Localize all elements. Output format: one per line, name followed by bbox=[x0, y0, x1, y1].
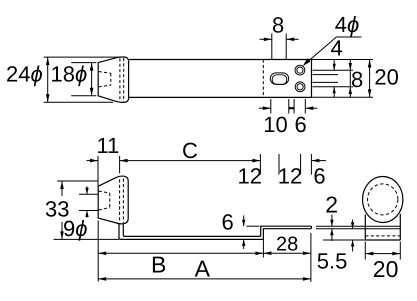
dim 10 right extension line bbox=[288, 99, 290, 114]
dim 8 slot right arrow bbox=[286, 38, 298, 40]
dim 4 line lower mirror bbox=[333, 87, 335, 98]
cap side bore end dashed bbox=[109, 193, 111, 208]
dim 18phi up arrowhead bbox=[90, 63, 94, 71]
cap side hidden dashed line 2 bbox=[122, 179, 124, 223]
slot bottom edge extension line bbox=[313, 81, 339, 83]
cap side bore top dashed bbox=[99, 191, 110, 193]
leader line 4phi bbox=[304, 37, 362, 65]
dim C line bbox=[120, 160, 261, 162]
dim 18phi top extension line bbox=[71, 62, 96, 64]
end view dashed circle bbox=[368, 184, 398, 215]
dim 8 slot left extension line bbox=[271, 34, 273, 60]
bar body top view bbox=[129, 60, 312, 98]
svg-text:10: 10 bbox=[263, 112, 287, 137]
dim 10-6 middle arrows bbox=[289, 107, 294, 109]
dim 9phi up arrow bbox=[86, 211, 88, 218]
dim 2 extension line top bbox=[316, 225, 365, 227]
dim 28 left extension line bbox=[262, 239, 264, 257]
dim 10 left extension line bbox=[270, 99, 272, 114]
dim 20 block line bbox=[365, 253, 400, 255]
svg-text:4ϕ: 4ϕ bbox=[335, 12, 360, 37]
hole circle 1 outer bbox=[295, 65, 305, 75]
circle2 center extension line bbox=[313, 86, 354, 88]
cap hidden edge dashed line 1 bbox=[119, 58, 121, 101]
dim 12-12-6 extension line d bbox=[310, 154, 312, 175]
strap tip end bbox=[310, 226, 312, 229]
socket cap side view outline bbox=[98, 176, 128, 224]
dim 6 right extension line bbox=[304, 99, 306, 114]
dim 12-12-6 extension line a bbox=[259, 154, 261, 175]
hole circle 2 inner bbox=[297, 84, 303, 90]
svg-text:C: C bbox=[182, 138, 198, 163]
dim 8 slot right extension line bbox=[285, 34, 287, 60]
dim 33 bottom extension line strap bottom extended bbox=[54, 238, 120, 240]
slot inner outline bbox=[272, 75, 287, 85]
end view block left edge bbox=[364, 215, 366, 241]
cap bore hidden bottom line bbox=[99, 85, 111, 87]
svg-text:20: 20 bbox=[373, 256, 399, 282]
svg-text:2: 2 bbox=[325, 192, 338, 218]
circle1 center extension line bbox=[313, 69, 354, 71]
end view strap line bottom bbox=[365, 228, 400, 230]
dim 24phi top extension line bbox=[44, 56, 123, 58]
end view strap line top bbox=[365, 225, 400, 227]
svg-text:9ϕ: 9ϕ bbox=[63, 216, 88, 241]
hole circle 1 inner bbox=[297, 67, 303, 73]
svg-text:20: 20 bbox=[374, 65, 398, 90]
svg-text:24ϕ: 24ϕ bbox=[6, 62, 43, 87]
dim 2 down arrow bbox=[331, 215, 333, 227]
bar bottom right extension line bbox=[312, 96, 374, 98]
dim B A left extension line bbox=[97, 221, 99, 282]
cap side hidden dashed line 1 bbox=[119, 179, 121, 222]
dim 20 block left extension bbox=[364, 242, 366, 260]
dim B line bbox=[98, 252, 263, 254]
svg-text:8: 8 bbox=[351, 67, 363, 92]
dim 28 line bbox=[263, 252, 311, 254]
end view hidden dashed line bbox=[365, 235, 400, 237]
strap drop outer edge bbox=[119, 224, 263, 240]
dim 11 left arrow bbox=[87, 160, 99, 162]
dim 28 A right extension line bbox=[310, 233, 312, 282]
svg-text:6: 6 bbox=[222, 210, 234, 235]
end block dashed line in bar bbox=[262, 60, 264, 98]
dim 5.5 up arrow bbox=[352, 240, 354, 252]
svg-text:18ϕ: 18ϕ bbox=[51, 62, 88, 87]
dim 2 extension line bottom bbox=[316, 228, 365, 230]
dim 18phi down arrowhead bbox=[90, 88, 94, 96]
svg-text:11: 11 bbox=[97, 133, 120, 158]
dim 24phi down arrowhead bbox=[46, 94, 50, 102]
dim 10 left arrow bbox=[259, 107, 271, 109]
end view block bottom edge bbox=[365, 239, 400, 241]
dim 5.5 down arrow bbox=[352, 220, 354, 229]
dim 6 step up arrow bbox=[243, 239, 245, 249]
svg-text:12: 12 bbox=[278, 164, 302, 189]
leader arrowhead bbox=[303, 58, 310, 66]
cap side bore bottom dashed bbox=[99, 208, 110, 210]
dim 18phi bottom extension line bbox=[71, 95, 96, 97]
svg-text:B: B bbox=[151, 252, 166, 278]
svg-text:28: 28 bbox=[276, 234, 298, 256]
dim 6 left extension line bbox=[293, 99, 295, 114]
svg-text:6: 6 bbox=[295, 112, 307, 137]
dim 12-12-6 extension line b bbox=[278, 154, 280, 175]
svg-text:4: 4 bbox=[331, 35, 343, 60]
dim 6 right outside arrow bbox=[311, 160, 326, 162]
dim 24phi arrow line bbox=[47, 57, 49, 102]
svg-text:5.5: 5.5 bbox=[317, 248, 348, 273]
end view circle bbox=[363, 177, 403, 223]
svg-text:12: 12 bbox=[238, 164, 262, 189]
svg-text:6: 6 bbox=[313, 164, 325, 189]
dim A line bbox=[98, 278, 311, 280]
dim 24phi up arrowhead bbox=[46, 57, 50, 65]
dim 2 up arrow bbox=[331, 229, 333, 241]
strap step top surface bbox=[261, 226, 312, 236]
cap hidden edge dashed line 2 bbox=[123, 58, 125, 102]
svg-text:8: 8 bbox=[272, 13, 284, 38]
dim 33 arrow line lower bbox=[61, 222, 63, 239]
dim 9phi bottom extension line bbox=[79, 210, 98, 212]
dim 8 slot left arrow bbox=[260, 38, 272, 40]
hole circle 2 outer bbox=[295, 82, 305, 92]
strap drop inner edge bbox=[123, 224, 260, 236]
slot top edge extension line bbox=[313, 74, 339, 76]
dim 12-12-6 extension line c bbox=[300, 154, 302, 175]
dim 33 top extension line bbox=[57, 180, 98, 182]
dim 9phi top extension line bbox=[79, 193, 98, 195]
slot outer outline bbox=[270, 73, 288, 84]
strap step bottom surface bbox=[263, 229, 311, 240]
dim 33 arrow line upper bbox=[61, 181, 63, 196]
dim 6 step down arrow bbox=[243, 216, 245, 227]
cap bore hidden top line bbox=[99, 72, 111, 74]
dim 24phi bottom extension line bbox=[44, 101, 114, 103]
bar top right extension line bbox=[312, 59, 374, 61]
dim 9phi down arrow bbox=[86, 186, 88, 194]
dim 11 right extension line bbox=[119, 156, 121, 173]
dim 11 left extension line bbox=[97, 156, 99, 186]
socket cap top view outline bbox=[98, 57, 128, 102]
block bottom left extension line bbox=[323, 239, 365, 241]
dim 20 line right bbox=[369, 60, 371, 98]
end view block right edge bbox=[399, 214, 401, 240]
dim 6 right arrow bbox=[305, 107, 317, 109]
dim 20 block right extension bbox=[399, 242, 401, 260]
dim 18phi arrow line bbox=[91, 63, 93, 96]
dim 6 step stub extension bbox=[247, 225, 260, 227]
cap bore hidden end line bbox=[110, 73, 112, 85]
dim 8 circles line bbox=[349, 60, 351, 98]
svg-text:A: A bbox=[195, 256, 211, 282]
dim 4 line upper bbox=[333, 60, 335, 71]
